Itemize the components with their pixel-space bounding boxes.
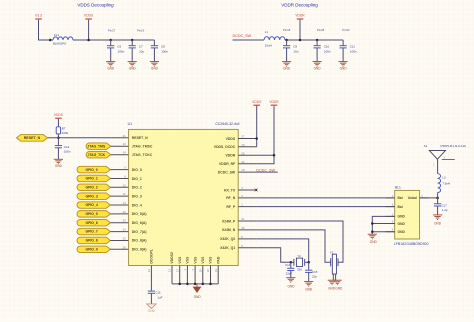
svg-text:1uF: 1uF [157,295,162,299]
pin stub DIO_2 [110,186,128,188]
svg-text:BL1: BL1 [395,186,401,190]
svg-text:DIO_6(A): DIO_6(A) [132,221,147,225]
svg-text:BLM31PG: BLM31PG [53,42,67,46]
svg-text:100n: 100n [64,149,71,153]
power port VDDS reset pullup [54,113,64,120]
svg-text:100n: 100n [118,50,125,54]
svg-text:RX_TX: RX_TX [224,188,236,192]
svg-text:RF_P: RF_P [226,205,235,209]
svg-text:JTAG_TMS: JTAG_TMS [87,144,106,148]
antenna A1 [429,151,455,167]
pin stub RX_TX 4 [238,189,256,191]
pin VSS (26) bottom [206,256,213,272]
wire Y2 left node [291,261,294,263]
svg-text:DCDC_SW: DCDC_SW [233,34,252,38]
pin stub DIO_3 [110,195,128,197]
svg-text:A1: A1 [424,144,428,148]
svg-text:24: 24 [123,228,127,232]
svg-text:GND: GND [398,222,406,226]
ground balun [368,234,378,244]
ground below C12 [54,159,63,168]
port GPIO_9 [77,246,110,253]
capacitor C14 22pF [285,262,294,277]
svg-text:GND: GND [283,66,291,70]
svg-text:100k: 100k [62,131,69,135]
svg-text:10u: 10u [294,50,299,54]
svg-text:DCOUPL: DCOUPL [150,249,154,264]
svg-text:JTAG_TMSC: JTAG_TMSC [132,145,153,149]
wire VSS rail horizontal [172,283,218,285]
svg-text:GND: GND [305,287,313,291]
svg-text:PRO5-R1-N-6-110: PRO5-R1-N-6-110 [441,144,467,148]
svg-text:VDDR: VDDR [269,100,279,104]
pin JTAG_TCKC (14) left [123,151,153,157]
svg-text:VDDS Decoupling: VDDS Decoupling [77,2,114,7]
wire Y2 right node [305,261,309,263]
svg-text:C6: C6 [117,44,121,48]
wire VDDS rail [73,39,154,41]
svg-text:GND: GND [340,66,348,70]
pin stub JTAG_TMSC [111,145,129,147]
svg-text:C9: C9 [293,44,297,48]
svg-text:GND: GND [314,66,322,70]
svg-text:VDDR_RF: VDDR_RF [219,162,235,166]
inductor L2 7.5nH [438,174,451,198]
wire X24M_N to Y1 [257,230,331,262]
pin stub RF_N 2 [238,197,257,199]
svg-text:23: 23 [123,219,127,223]
svg-text:GND: GND [151,66,159,70]
svg-text:RESET_N: RESET_N [24,136,41,140]
capacitor C7 10u [129,39,145,62]
wire VDDR drop [299,20,301,40]
svg-text:X24M_P: X24M_P [222,219,236,223]
pin stub DCDC_SW 18 [238,171,257,173]
svg-text:10u: 10u [139,50,144,54]
wire Unbal to antenna node [420,197,438,199]
svg-text:JTAG_TCK: JTAG_TCK [87,153,105,157]
port GPIO_6 [77,219,110,226]
wire L2 to antenna [437,160,439,174]
svg-text:Bal: Bal [398,196,403,200]
port JTAG_TMS [86,143,111,150]
power port V3.3 [35,14,42,21]
svg-text:14: 14 [123,201,127,205]
svg-text:VSS: VSS [178,256,182,264]
svg-text:GND: GND [55,164,63,168]
svg-text:GND: GND [398,215,406,219]
svg-text:10: 10 [123,183,127,187]
pin stub DIO_9 [110,248,128,250]
pin stub VDDR_RF 32 [238,163,257,165]
svg-text:C14: C14 [285,263,291,267]
wire DCDC_SW net [257,171,278,173]
svg-text:DIO_5(A): DIO_5(A) [132,212,147,216]
balun BL1 body [395,190,420,239]
svg-text:DIO_4: DIO_4 [132,203,142,207]
port RESET_N [17,135,48,142]
pin DIO_5(A) (22) left [123,210,147,216]
svg-text:VDDS: VDDS [54,113,64,117]
svg-text:C17: C17 [441,203,447,207]
capacitor C17 1.2p [434,198,448,215]
svg-text:U1: U1 [128,122,132,126]
junction VDDS rail [87,39,90,42]
svg-text:RESET_N: RESET_N [132,136,148,140]
pin stub DIO_6 [110,222,128,224]
svg-text:21: 21 [123,134,127,138]
ground below C7 [128,62,137,71]
svg-text:27: 27 [241,135,245,139]
op IC U1 CC2640 body [129,129,239,265]
pin X24M_N (30) right [222,226,245,232]
svg-text:GPIO_0: GPIO_0 [85,168,97,172]
pin RX_TX (4) right [224,186,243,192]
wire R7 to reset node [57,134,59,145]
wire VDDS to R7 [57,119,59,126]
pin stubs VSS rail verticals [172,266,218,284]
port GPIO_5 [77,211,110,218]
svg-text:GPIO_2: GPIO_2 [85,185,97,189]
port GPIO_1 [77,175,110,182]
pin X32K_Q1 (5) right [220,244,243,250]
svg-text:100n: 100n [324,50,331,54]
svg-text:1.2p: 1.2p [442,208,448,212]
junction antenna node [436,197,439,200]
svg-text:31: 31 [241,217,245,221]
svg-text:7.5nH: 7.5nH [442,182,450,186]
ground below C11 [339,62,348,71]
capacitor C9 10u [283,39,299,62]
svg-text:PAD: PAD [216,256,220,264]
pin DIO_2 (10) left [123,183,142,189]
svg-text:DIO_3: DIO_3 [132,195,142,199]
svg-text:C8: C8 [161,44,165,48]
junction balun gnd 2 [371,230,374,233]
svg-text:Pin32: Pin32 [342,28,350,32]
svg-text:Y1: Y1 [330,250,334,254]
port JTAG_TCK [86,151,111,158]
pin VDDR (28) right [225,151,244,157]
svg-text:GPIO_3: GPIO_3 [85,194,97,198]
svg-text:Bal: Bal [398,205,403,209]
wire Y1 case legs [332,274,334,280]
svg-text:L1: L1 [265,30,269,34]
wire VDDS drop [88,20,90,40]
port GPIO_3 [77,193,110,200]
wire RF_P to balun [257,206,395,208]
ground Y1 case b [333,280,343,290]
svg-text:C16: C16 [155,290,161,294]
ground below C8 [150,62,159,71]
wire VDDR net vertical [257,106,274,164]
svg-text:GND: GND [398,230,406,234]
capacitor C10 100n [314,39,332,62]
pin VSS (1) bottom [183,256,190,271]
svg-text:GND: GND [194,295,202,299]
ground below C9 [282,62,291,71]
svg-text:22: 22 [123,210,127,214]
svg-text:VDDR: VDDR [225,154,235,158]
svg-text:33: 33 [214,269,218,273]
junction VDDR rail [299,39,302,42]
svg-text:GND: GND [107,66,115,70]
power port VDDR [295,14,305,21]
pin stub VDDS_DCDC 19 [238,146,257,148]
ground below C17 [433,215,442,225]
svg-text:Pin18: Pin18 [283,28,291,32]
wire X32K_Q2 to Y2 [257,239,309,262]
no-ERC cross RX_TX [254,188,258,192]
svg-text:22pF: 22pF [286,272,293,276]
svg-text:Pin27: Pin27 [108,29,116,33]
capacitor C15 22p [305,262,318,281]
svg-text:VDDS: VDDS [84,14,94,18]
svg-text:X32K_Q2: X32K_Q2 [220,237,235,241]
ground below C16 [147,304,156,313]
junction reset node [57,137,60,140]
svg-text:29: 29 [199,269,203,273]
port GPIO_8 [77,237,110,244]
svg-text:VSS: VSS [209,256,213,264]
pin VDDS2 (13) bottom [168,252,175,272]
pin stub VDDS 27 [238,138,257,140]
pin stub DIO_1 [110,177,128,179]
svg-text:X24M_N: X24M_N [222,228,236,232]
wire balun GND pins [372,216,394,234]
svg-text:C12: C12 [64,145,70,149]
pin X32K_Q2 (6) right [220,235,243,241]
svg-text:10uH: 10uH [265,44,272,48]
svg-text:28: 28 [241,151,245,155]
pin stub DCOUPL [150,266,152,284]
svg-text:GND: GND [434,221,442,225]
pin PAD (33) bottom [214,256,221,272]
pin DIO_4 (14) left [123,201,142,207]
ground below C10 [313,62,322,71]
wire X24M_P to Y1 [257,221,343,262]
pin DIO_6(A) (23) left [123,219,147,225]
svg-text:GPIO_4: GPIO_4 [85,203,97,207]
svg-text:100n: 100n [350,50,357,54]
pin DIO_0 (5) left [124,166,142,172]
junction FL1 left [49,39,52,42]
wire DCOUPL to C16 [150,284,152,291]
svg-text:23: 23 [147,269,151,273]
svg-text:GND: GND [129,66,137,70]
pin DCDC_SW (18) right [218,168,245,174]
svg-text:C15: C15 [312,270,318,274]
ground below C14 [286,278,295,289]
junctions VSS rail [178,283,211,286]
svg-text:30: 30 [241,226,245,230]
pin stub DIO_0 [110,169,128,171]
svg-text:CC2640-32-4x4: CC2640-32-4x4 [215,122,239,126]
port GPIO_4 [77,202,110,209]
ground Y1 case a [328,280,337,290]
balun pin Bal (6) [392,203,403,209]
junction balun gnd 1 [371,222,374,225]
crystal Y2 32K [294,254,305,271]
pin stub DIO_4 [110,204,128,206]
wire VDDR rail [285,39,343,41]
svg-text:VDDR: VDDR [295,14,305,18]
svg-text:GPIO_7: GPIO_7 [85,230,97,234]
pin X24M_P (31) right [222,217,245,223]
svg-text:Pin28: Pin28 [317,28,325,32]
svg-text:RF_N: RF_N [226,196,235,200]
svg-text:GND: GND [288,284,296,288]
svg-text:C10: C10 [324,44,330,48]
svg-text:DIO_7(A): DIO_7(A) [132,230,147,234]
svg-text:32: 32 [241,160,245,164]
balun pin Unbal (1) [408,194,424,200]
svg-text:VDDS2: VDDS2 [170,252,174,264]
svg-text:VDDS: VDDS [226,137,236,141]
svg-text:GPIO_6: GPIO_6 [85,221,97,225]
svg-text:11: 11 [123,192,126,196]
svg-text:X32K_Q1: X32K_Q1 [220,246,235,250]
wire RF_N to balun [257,197,395,199]
junction Y2 right [307,261,310,264]
svg-text:GPIO_8: GPIO_8 [85,239,97,243]
port GPIO_7 [77,228,110,235]
pin stub X32K_Q2 6 [238,238,257,240]
capacitor C16 1uF [148,290,163,303]
pin RESET_N (21) left [123,134,149,140]
power port VDDR right [269,100,279,107]
pin DIO_1 (6) left [124,175,142,181]
pin DIO_7(A) (24) left [123,228,147,234]
wire VDDS net vertical [256,106,258,147]
svg-text:C7: C7 [139,44,143,48]
svg-text:V3.3: V3.3 [35,14,42,18]
pin VDDS_DCDC (19) right [214,143,245,149]
capacitor C11 100n [340,40,358,61]
pin stub VDDR 28 [238,154,257,156]
svg-text:VSS: VSS [193,256,197,264]
svg-text:L2: L2 [442,176,446,180]
junction VDDS net [255,137,258,140]
svg-text:Unbal: Unbal [408,196,417,200]
pin stub RF_P 1 [238,206,257,208]
pin DIO_8(A) (25) left [123,236,147,242]
ground below C15 [304,282,313,292]
svg-text:GND: GND [370,240,378,244]
port GPIO_2 [77,184,110,191]
svg-text:DIO_9(A): DIO_9(A) [132,248,147,252]
svg-text:26: 26 [206,269,210,273]
wire VDDR to net [257,154,274,156]
svg-text:17: 17 [175,269,179,273]
pin DIO_9(A) (26) left [123,245,147,251]
svg-text:JTAG_TCKC: JTAG_TCKC [132,153,153,157]
pin stub DIO_7 [110,231,128,233]
svg-text:GPIO_5: GPIO_5 [85,212,97,216]
svg-text:19: 19 [241,143,245,147]
svg-text:100n: 100n [161,50,168,54]
svg-text:13: 13 [123,142,127,146]
svg-text:VSS: VSS [201,256,205,264]
capacitor C8 100n [151,40,169,61]
pin stub JTAG_TCKC [111,154,129,156]
ground below C6 [106,62,115,71]
pin stub X24M_N 30 [238,229,257,231]
pin VDDS (27) right [226,135,245,141]
svg-text:VDDS_DCDC: VDDS_DCDC [214,145,236,149]
junction Y2 left [290,261,293,264]
svg-text:DCDC_SW: DCDC_SW [218,170,236,174]
junction VDDR net [273,154,276,157]
pin VDDR_RF (32) right [219,160,245,166]
balun pin Bal (4) [392,194,403,200]
svg-text:Pin19: Pin19 [137,29,145,33]
svg-text:14: 14 [123,151,127,155]
wire X32K_Q1 to Y2 [257,248,291,262]
ferrite bead FL1 [53,33,73,45]
pin stub X32K_Q1 5 [238,247,257,249]
svg-text:DIO_0: DIO_0 [132,168,142,172]
svg-text:DIO_1: DIO_1 [132,177,142,181]
svg-text:DIO_8(A): DIO_8(A) [132,239,147,243]
svg-text:VDDR Decoupling: VDDR Decoupling [281,2,318,7]
pin RF_N (2) right [226,194,243,200]
svg-text:13: 13 [168,269,172,273]
wire RESET_N to U1 [48,137,111,139]
pin stub RESET_N [111,137,129,139]
svg-text:FL1: FL1 [54,33,59,37]
wire V3.3 to rail [39,20,54,40]
balun pin stubs [386,198,429,232]
pin VSS (7) bottom [191,256,198,271]
pin stub DIO_8 [110,239,128,241]
port GPIO_0 [77,166,110,173]
capacitor C12 100n [55,145,71,159]
svg-text:26: 26 [123,245,127,249]
power port VDDS [84,14,94,21]
svg-text:VSS: VSS [186,256,190,264]
capacitor C6 100n [107,39,125,62]
svg-text:32K: 32K [297,267,302,271]
svg-text:25: 25 [123,236,127,240]
svg-text:DCDC_SW: DCDC_SW [256,168,275,172]
svg-text:GND: GND [148,309,156,313]
pin stub X24M_P 31 [238,220,257,222]
resistor R7 100k [56,127,68,135]
svg-text:GPIO_1: GPIO_1 [85,177,97,181]
power port VDDS right [252,100,262,107]
svg-text:GND: GND [335,287,343,291]
pin DCOUPL (23) bottom [147,249,154,272]
balun pin GND (3) [392,220,406,226]
svg-text:18: 18 [241,168,245,172]
crystal Y1 [330,250,338,274]
svg-text:DIO_2: DIO_2 [132,186,142,190]
balun pin GND (5) [392,228,406,234]
pin DIO_3 (11) left [123,192,142,198]
pin RF_P (1) right [226,203,243,209]
svg-text:22p: 22p [312,275,317,279]
ground VSS rail [193,284,202,299]
svg-text:Y2: Y2 [297,254,301,258]
pin JTAG_TMSC (13) left [123,142,153,148]
pin VSS (17) bottom [175,256,182,272]
svg-text:C11: C11 [350,44,356,48]
svg-text:GPIO_9: GPIO_9 [85,247,97,251]
svg-text:LFB182G45BG5D920: LFB182G45BG5D920 [394,242,429,246]
svg-text:VDDS: VDDS [252,100,262,104]
pin VSS (29) bottom [199,256,206,272]
